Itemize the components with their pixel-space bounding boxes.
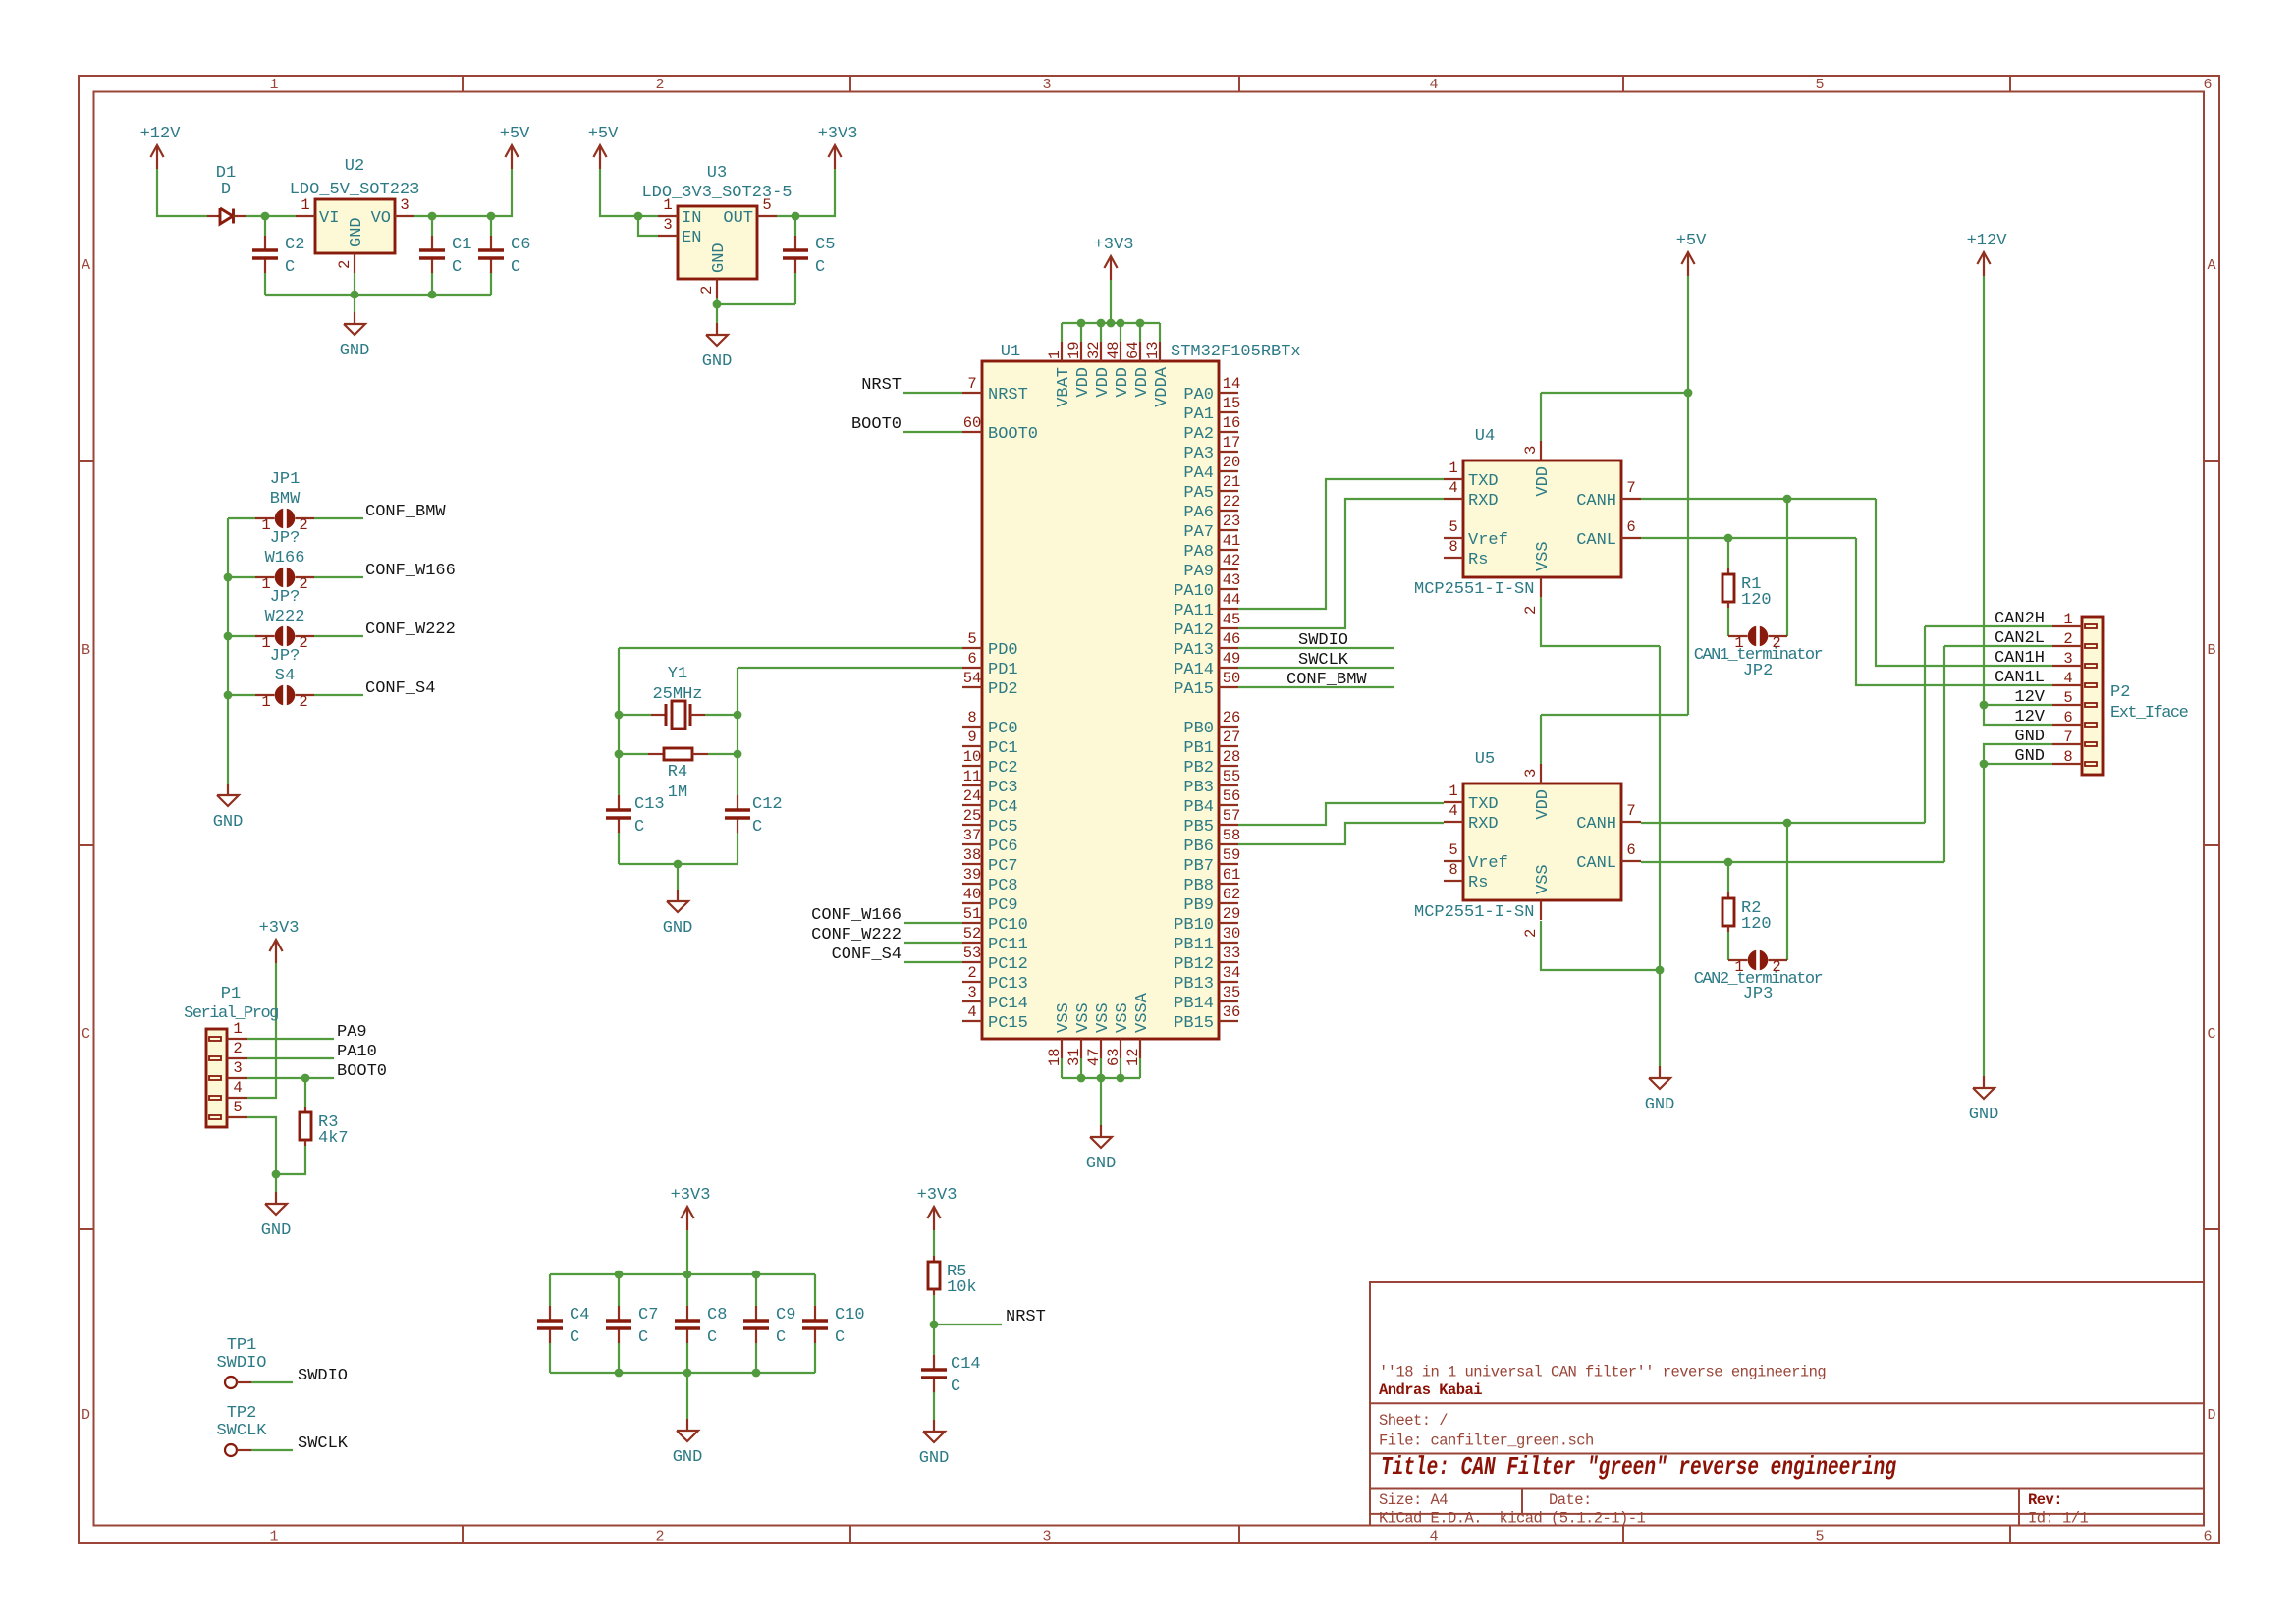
svg-text:W222: W222 [265, 608, 305, 626]
wire C10 top [814, 1274, 816, 1306]
svg-text:57: 57 [1223, 807, 1241, 825]
U1 pin 2 (PC13) [962, 981, 982, 983]
U1 pin 53 (PC12) [962, 961, 982, 963]
svg-text:Rev:: Rev: [2028, 1491, 2062, 1509]
junction C7 bottom [615, 1369, 624, 1378]
svg-text:U4: U4 [1475, 427, 1495, 446]
wire P2 GND trunk [1984, 744, 2052, 1076]
svg-text:1: 1 [233, 1020, 242, 1038]
wire C2 bottom [264, 273, 266, 295]
svg-text:16: 16 [1223, 414, 1241, 432]
wire U1 VDD pin riser [1139, 323, 1141, 342]
svg-text:35: 35 [1223, 984, 1241, 1001]
svg-text:D: D [221, 181, 231, 199]
U1 pin 24 (PC4) [962, 804, 982, 806]
svg-text:GND: GND [702, 352, 733, 371]
wire TP1 to SWDIO [251, 1381, 293, 1383]
capacitor C4 [549, 1306, 551, 1320]
svg-text:CANL: CANL [1576, 854, 1616, 873]
U5 pin 2 VSS [1540, 900, 1542, 920]
svg-text:3: 3 [233, 1059, 242, 1077]
capacitor C2 [264, 236, 266, 249]
svg-text:PA10: PA10 [337, 1043, 377, 1061]
svg-text:11: 11 [963, 768, 982, 785]
wire U1 VSS pin drop [1120, 1058, 1121, 1078]
capacitor C5 [794, 236, 796, 249]
power +5V (CAN) [1687, 252, 1689, 276]
svg-text:+5V: +5V [500, 125, 530, 143]
svg-text:1: 1 [1734, 958, 1743, 976]
svg-text:2: 2 [2063, 630, 2072, 648]
svg-text:PC8: PC8 [988, 877, 1018, 895]
P2 pin 2 (CAN2L) [2085, 644, 2097, 648]
svg-text:JP?: JP? [270, 529, 301, 548]
junction U5 VSS [1656, 966, 1665, 975]
svg-text:JP?: JP? [270, 588, 301, 607]
svg-text:1M: 1M [668, 784, 687, 802]
wire U5 VSS [1541, 921, 1660, 970]
resistor R3 4k7 [304, 1107, 306, 1112]
U1 pin 64 (VDD) [1139, 342, 1141, 361]
svg-text:36: 36 [1223, 1003, 1241, 1021]
svg-text:VDD: VDD [1114, 367, 1132, 398]
svg-text:VDD: VDD [1074, 367, 1093, 398]
svg-text:5: 5 [1449, 518, 1457, 536]
svg-text:4: 4 [1429, 1529, 1438, 1545]
U1 pin 28 (PB2) [1219, 765, 1238, 767]
wire from R4 [708, 753, 738, 755]
wire +5V to U3 IN [600, 169, 658, 216]
wire U1 VSS bus [1062, 1077, 1140, 1079]
svg-text:Rs: Rs [1468, 874, 1488, 892]
junction U1 VDD bus [1107, 319, 1116, 328]
wire PB6 to U5 RXD [1238, 823, 1444, 844]
wire C7 top [618, 1274, 620, 1306]
svg-text:BOOT0: BOOT0 [988, 425, 1038, 444]
svg-text:CANH: CANH [1576, 492, 1616, 511]
svg-text:9: 9 [967, 729, 976, 746]
svg-text:1: 1 [261, 693, 270, 711]
wire to R2 [1727, 862, 1729, 892]
U1 pin 37 (PC6) [962, 843, 982, 845]
U1 pin 12 (VSSA) [1139, 1039, 1141, 1058]
wire C8 top [686, 1274, 688, 1306]
svg-text:PC14: PC14 [988, 995, 1028, 1013]
wire CANH to JP3 pin2 [1786, 823, 1788, 960]
svg-text:30: 30 [1223, 925, 1241, 943]
svg-text:1: 1 [301, 196, 309, 214]
U1 pin 55 (PB3) [1219, 784, 1238, 786]
svg-text:120: 120 [1741, 915, 1772, 934]
svg-text:VDDA: VDDA [1153, 366, 1172, 407]
svg-text:25: 25 [963, 807, 982, 825]
svg-text:PA2: PA2 [1183, 425, 1214, 444]
svg-text:4: 4 [2063, 670, 2072, 687]
svg-text:STM32F105RBTx: STM32F105RBTx [1171, 343, 1301, 361]
svg-text:61: 61 [1223, 866, 1241, 884]
wire PA13 SWDIO [1238, 647, 1394, 649]
junction C9 top [752, 1271, 761, 1279]
U1 pin 43 (PA10) [1219, 588, 1238, 590]
U1 pin 38 (PC7) [962, 863, 982, 865]
wire U1 VDD pin riser [1080, 323, 1082, 342]
U1 pin 20 (PA4) [1219, 470, 1238, 472]
svg-text:PA1: PA1 [1183, 405, 1214, 424]
U2 pin 1 VI [296, 215, 315, 217]
junction U1 VDD bus [1097, 319, 1106, 328]
svg-text:C: C [752, 818, 762, 837]
wire R3 top [304, 1078, 306, 1107]
svg-text:VBAT: VBAT [1055, 367, 1073, 407]
svg-text:5: 5 [1815, 77, 1824, 93]
wire +3V3 to R5 [933, 1230, 935, 1256]
wire C9 top [755, 1274, 757, 1306]
svg-text:VSS: VSS [1055, 1002, 1073, 1033]
power +12V (P2) [1983, 252, 1985, 276]
U1 pin 23 (PA7) [1219, 529, 1238, 531]
U1 pin 40 (PC9) [962, 902, 982, 904]
svg-text:28: 28 [1223, 748, 1241, 766]
svg-text:4: 4 [1449, 479, 1457, 497]
U4 pin 2 VSS [1540, 577, 1542, 597]
svg-text:C7: C7 [638, 1306, 658, 1325]
svg-text:5: 5 [967, 630, 976, 648]
svg-text:3: 3 [2063, 650, 2072, 668]
svg-text:Date:: Date: [1549, 1491, 1592, 1509]
P2 pin 7 (GND) [2085, 742, 2097, 746]
wire 12V to P2 pin5 [1984, 704, 2052, 706]
svg-text:1: 1 [1449, 783, 1457, 800]
svg-text:PC9: PC9 [988, 896, 1018, 915]
svg-text:Y1: Y1 [668, 665, 687, 683]
svg-text:SWCLK: SWCLK [216, 1422, 267, 1440]
svg-text:CONF_S4: CONF_S4 [365, 679, 435, 698]
U1 pin 45 (PA12) [1219, 627, 1238, 629]
U1 pin 61 (PB8) [1219, 883, 1238, 885]
power +3V3 (decoupling) [686, 1207, 688, 1230]
U3 pin 5 OUT [757, 215, 777, 217]
svg-text:62: 62 [1223, 886, 1241, 903]
wire CAN2H riser [1924, 626, 1926, 823]
svg-text:33: 33 [1223, 945, 1241, 962]
svg-text:29: 29 [1223, 905, 1241, 923]
svg-text:6: 6 [2203, 1529, 2212, 1545]
wire PA11 to U4 TXD [1238, 479, 1444, 609]
svg-text:43: 43 [1223, 571, 1241, 589]
U1 pin 48 (VDD) [1120, 342, 1121, 361]
wire crystal right node [737, 668, 738, 795]
wire U2 ground bus [265, 294, 491, 296]
svg-text:55: 55 [1223, 768, 1241, 785]
svg-text:52: 52 [963, 925, 982, 943]
svg-text:SWCLK: SWCLK [1298, 651, 1349, 670]
svg-text:10: 10 [963, 748, 982, 766]
wire to U3 EN [638, 216, 658, 236]
ground U3 [716, 323, 718, 335]
svg-text:C4: C4 [570, 1306, 589, 1325]
junction U1 VDD bus [1136, 319, 1145, 328]
svg-text:U5: U5 [1475, 750, 1495, 769]
wire U4 VSS [1541, 597, 1660, 646]
svg-text:GND: GND [2014, 728, 2045, 746]
U1 pin 7 (NRST) [962, 392, 982, 394]
svg-text:TXD: TXD [1468, 472, 1499, 491]
svg-text:Title: CAN Filter "green" reve: Title: CAN Filter "green" reverse engine… [1381, 1452, 1896, 1482]
junction C8 bottom [683, 1369, 692, 1378]
wire crystal ground drop [677, 864, 679, 890]
wire U1 VSS pin drop [1061, 1058, 1063, 1078]
wire W222 pin2 to CONF_W222 [314, 635, 363, 637]
wire +12V to P2 pin6 [1984, 276, 2052, 725]
U1 pin 49 (PA14) [1219, 667, 1238, 669]
U5 pin 7 CANH [1621, 821, 1641, 823]
svg-text:Size: A4: Size: A4 [1379, 1491, 1448, 1509]
svg-text:59: 59 [1223, 846, 1241, 864]
svg-text:25MHz: 25MHz [652, 685, 702, 704]
svg-text:GND: GND [710, 243, 729, 273]
wire BOOT0 to U1 [903, 431, 962, 433]
capacitor C6 [490, 236, 492, 249]
svg-text:PB4: PB4 [1183, 798, 1214, 817]
svg-text:PC4: PC4 [988, 798, 1018, 817]
svg-text:C2: C2 [285, 236, 304, 254]
wire U1 VDD pin riser [1120, 323, 1121, 342]
U1 pin 58 (PB6) [1219, 843, 1238, 845]
svg-text:PD2: PD2 [988, 680, 1018, 699]
junction R4 left [615, 750, 624, 759]
P2 pin 1 (CAN2H) [2085, 624, 2097, 628]
svg-text:PC1: PC1 [988, 739, 1018, 758]
svg-text:PB9: PB9 [1183, 896, 1214, 915]
svg-text:+5V: +5V [1676, 232, 1707, 250]
wire +12V to D1 anode [157, 169, 207, 216]
U5 pin 3 VDD [1540, 764, 1542, 784]
wire C10 bottom [814, 1343, 816, 1373]
wire NRST node to C14 [933, 1325, 935, 1355]
svg-text:PA5: PA5 [1183, 484, 1214, 503]
wire U1 VDD pin riser [1100, 323, 1102, 342]
U1 pin 44 (PA11) [1219, 608, 1238, 610]
U1 pin 15 (PA1) [1219, 411, 1238, 413]
power +5V (U2 output) [511, 145, 513, 169]
svg-text:27: 27 [1223, 729, 1241, 746]
svg-text:PC6: PC6 [988, 838, 1018, 856]
svg-text:PA15: PA15 [1174, 680, 1214, 699]
svg-text:PA3: PA3 [1183, 445, 1214, 463]
svg-text:2: 2 [967, 964, 976, 982]
svg-text:8: 8 [967, 709, 976, 727]
svg-text:3: 3 [1042, 77, 1051, 93]
U1 pin 25 (PC5) [962, 824, 982, 826]
regulator U3 body [678, 206, 757, 279]
svg-text:15: 15 [1223, 395, 1241, 412]
U5 pin 4 RXD [1444, 821, 1463, 823]
ground decoupling caps [686, 1419, 688, 1431]
svg-text:3: 3 [1522, 769, 1540, 778]
wire U1 VSS pin drop [1100, 1058, 1102, 1078]
svg-text:+3V3: +3V3 [259, 919, 300, 938]
wire +5V to U5 [1687, 393, 1689, 715]
svg-text:PA8: PA8 [1183, 543, 1214, 562]
U3 pin 1 IN [658, 215, 678, 217]
junction CANL/R1 [1724, 534, 1733, 543]
junction W166 [224, 573, 233, 582]
svg-text:PC10: PC10 [988, 916, 1028, 935]
svg-text:GND: GND [348, 217, 366, 247]
svg-text:PC15: PC15 [988, 1014, 1028, 1033]
U1 pin 35 (PB14) [1219, 1000, 1238, 1002]
svg-text:46: 46 [1223, 630, 1241, 648]
svg-text:2: 2 [299, 516, 307, 534]
svg-text:7: 7 [1626, 479, 1635, 497]
wire P1 pin3 BOOT0 [247, 1077, 334, 1079]
svg-text:GND: GND [213, 813, 244, 832]
junction C1 top [428, 212, 437, 221]
svg-text:Ext_Iface: Ext_Iface [2110, 704, 2189, 723]
U1 pin 1 (VBAT) [1061, 342, 1063, 361]
wire PD0 to crystal [619, 647, 962, 649]
svg-text:CANL: CANL [1576, 531, 1616, 550]
svg-text:PA13: PA13 [1174, 641, 1214, 660]
wire CONF_S4 to U1 [904, 961, 962, 963]
svg-text:C5: C5 [815, 236, 835, 254]
wire NRST to U1 [903, 392, 962, 394]
svg-text:PB7: PB7 [1183, 857, 1214, 876]
svg-text:PA9: PA9 [1183, 563, 1214, 581]
svg-text:C: C [82, 1026, 90, 1043]
svg-text:PB1: PB1 [1183, 739, 1214, 758]
svg-text:64: 64 [1124, 341, 1142, 359]
svg-text:PB13: PB13 [1174, 975, 1214, 994]
junction crystal left [615, 711, 624, 720]
resistor R1 120 [1727, 568, 1729, 574]
U5 pin 6 CANL [1621, 860, 1641, 862]
wire U4 CANL [1641, 537, 1856, 539]
svg-text:CANH: CANH [1576, 815, 1616, 834]
svg-text:IN: IN [682, 209, 701, 228]
resistor R5 10k [933, 1256, 935, 1262]
svg-text:P2: P2 [2110, 683, 2130, 702]
power +3V3 (R5) [933, 1207, 935, 1230]
svg-text:2: 2 [1522, 606, 1540, 615]
ground jumpers [227, 784, 229, 795]
svg-text:6: 6 [1626, 841, 1635, 859]
junction CANL/R2 [1724, 858, 1733, 867]
svg-text:Andras Kabai: Andras Kabai [1379, 1381, 1482, 1399]
wire U3 GND bus [717, 298, 795, 304]
svg-text:PA10: PA10 [1174, 582, 1214, 601]
P1 pin 2 [209, 1056, 221, 1060]
wire U1 VDD pin riser [1159, 323, 1161, 342]
U1 pin 18 (VSS) [1061, 1039, 1063, 1058]
wire to R1 [1727, 538, 1729, 568]
U5 pin 8 Rs [1444, 880, 1463, 882]
svg-text:5: 5 [1815, 1529, 1824, 1545]
svg-text:2: 2 [1522, 929, 1540, 938]
power +3V3 (U1) [1110, 256, 1112, 280]
svg-text:Vref: Vref [1468, 854, 1508, 873]
svg-text:8: 8 [1449, 538, 1457, 556]
U1 pin 5 (PD0) [962, 647, 982, 649]
wire C12 bottom [737, 833, 738, 864]
capacitor C14 [933, 1355, 935, 1369]
wire P1 pin2 PA10 [247, 1057, 334, 1059]
svg-text:A: A [82, 257, 90, 274]
svg-text:53: 53 [963, 945, 982, 962]
wire C14 to ground [933, 1392, 935, 1420]
svg-text:JP3: JP3 [1743, 985, 1774, 1003]
svg-text:JP?: JP? [270, 647, 301, 666]
U1 pin 30 (PB11) [1219, 942, 1238, 944]
U1 pin 60 (BOOT0) [962, 431, 982, 433]
jumper JP3 (CAN2 terminator) [1728, 959, 1748, 961]
svg-text:19: 19 [1066, 341, 1083, 359]
wire to R4 [619, 753, 648, 755]
svg-text:Serial_Prog: Serial_Prog [184, 1004, 278, 1023]
capacitor C12 [737, 795, 738, 809]
svg-text:1: 1 [1734, 634, 1743, 652]
svg-text:D: D [2207, 1407, 2215, 1424]
junction CANH/JP2 [1783, 495, 1792, 504]
svg-text:PB11: PB11 [1174, 936, 1214, 954]
svg-text:5: 5 [2063, 689, 2072, 707]
jumper JP? (S4) [255, 694, 275, 696]
U1 pin 54 (PD2) [962, 686, 982, 688]
svg-text:6: 6 [2203, 77, 2212, 93]
svg-text:3: 3 [400, 196, 409, 214]
svg-text:TP1: TP1 [227, 1336, 257, 1355]
P2 pin 5 (12V) [2085, 703, 2097, 707]
svg-text:RXD: RXD [1468, 492, 1499, 511]
U4 pin 4 RXD [1444, 498, 1463, 500]
U1 pin 19 (VDD) [1080, 342, 1082, 361]
jumper JP1 (BMW) [255, 517, 275, 519]
wire CAN2L riser [1943, 646, 1945, 862]
svg-text:PB5: PB5 [1183, 818, 1214, 837]
svg-text:1: 1 [269, 1529, 278, 1545]
connector P2 Ext_Iface body [2082, 617, 2103, 775]
wire U1 VDD bus [1062, 322, 1160, 324]
svg-text:58: 58 [1223, 827, 1241, 844]
jumper JP? (W222) [255, 635, 275, 637]
svg-text:PA0: PA0 [1183, 386, 1214, 405]
svg-text:32: 32 [1085, 341, 1103, 359]
svg-text:C8: C8 [707, 1306, 727, 1325]
junction C6 top [487, 212, 496, 221]
svg-text:GND: GND [261, 1221, 292, 1240]
svg-text:PD0: PD0 [988, 641, 1018, 660]
svg-text:42: 42 [1223, 552, 1241, 569]
U1 pin 31 (VSS) [1080, 1039, 1082, 1058]
svg-text:B: B [82, 642, 90, 659]
svg-text:PC5: PC5 [988, 818, 1018, 837]
svg-text:PC7: PC7 [988, 857, 1018, 876]
svg-text:VO: VO [371, 209, 391, 228]
junction U1 VDD bus [1117, 319, 1125, 328]
svg-text:+3V3: +3V3 [917, 1186, 957, 1205]
wire CAN2H to P2 [1925, 625, 2052, 627]
svg-text:PC12: PC12 [988, 955, 1028, 974]
wire CONF_W222 to U1 [904, 942, 962, 944]
svg-text:C: C [452, 258, 462, 277]
svg-text:PB12: PB12 [1174, 955, 1214, 974]
svg-text:U2: U2 [345, 157, 364, 176]
svg-text:3: 3 [663, 216, 672, 234]
svg-text:+3V3: +3V3 [1094, 236, 1134, 254]
svg-text:21: 21 [1223, 473, 1241, 491]
wire TP2 to SWCLK [251, 1449, 293, 1451]
wire NRST node to label [934, 1324, 1002, 1325]
